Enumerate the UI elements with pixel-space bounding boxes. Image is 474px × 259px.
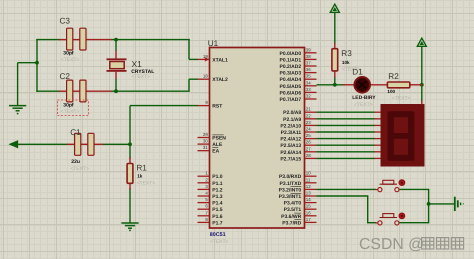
svg-text:U1: U1 <box>208 39 219 48</box>
wire P2.3 to display <box>317 131 375 133</box>
svg-text:PSEN: PSEN <box>212 136 226 142</box>
wire P2.0 to display <box>317 111 375 113</box>
svg-text:EA: EA <box>212 149 219 155</box>
chip pin P2.4/A12 (25) <box>305 138 317 140</box>
wire button2 right <box>399 222 429 224</box>
svg-text:37: 37 <box>306 61 311 66</box>
chip pin P3.5/T1 (15) <box>305 208 317 210</box>
chip pin P0.2/AD2 (37) <box>305 65 317 67</box>
svg-text:P3.3/INT1: P3.3/INT1 <box>279 194 302 200</box>
wire to right ground <box>429 203 455 205</box>
wire into button2 left <box>368 222 376 224</box>
wire XTAL2 net: C2 left segment <box>36 90 60 92</box>
chip pin EA (31) <box>198 150 210 152</box>
chip pin XTAL2 (18) <box>198 78 210 80</box>
wire right vertical between buttons <box>428 189 430 223</box>
svg-text:P1.3: P1.3 <box>212 194 223 200</box>
watermark CSDN @name <box>359 236 464 253</box>
node junction R2 / display feed <box>420 83 424 87</box>
svg-text:30pf: 30pf <box>63 51 74 57</box>
node junction C1/R1/RST <box>128 142 132 146</box>
wire riser junction to RST level <box>129 106 131 145</box>
svg-text:38: 38 <box>306 54 311 59</box>
svg-text:P3.2/INT0: P3.2/INT0 <box>279 187 302 193</box>
7-segment display segment pins <box>375 111 381 113</box>
chip pin P3.2/INT0 (12) <box>305 188 317 190</box>
wire R3 bottom to rail <box>334 77 336 86</box>
svg-text:<TEXT>: <TEXT> <box>354 102 373 108</box>
wire C1 right to junction <box>102 143 131 145</box>
svg-text:14: 14 <box>306 197 311 202</box>
led D1 <box>354 77 370 93</box>
7-segment display common pin <box>421 101 423 105</box>
svg-text:P3.1/TXD: P3.1/TXD <box>280 181 302 187</box>
svg-text:P3.5/T1: P3.5/T1 <box>284 207 302 213</box>
wire junction down to display common pin <box>421 85 423 102</box>
svg-text:23: 23 <box>306 120 311 125</box>
chip pin P1.3 (4) <box>198 195 210 197</box>
resistor R3 <box>332 49 338 71</box>
svg-text:30pf: 30pf <box>63 102 74 108</box>
wire XTAL2 net: into chip pin <box>189 78 198 80</box>
capacitor C2 <box>67 80 73 102</box>
svg-text:RST: RST <box>212 104 222 110</box>
svg-text:P1.4: P1.4 <box>212 201 223 207</box>
ground symbol under R1 <box>121 222 138 224</box>
capacitor C1 pins <box>67 143 75 145</box>
chip pin P0.0/AD0 (39) <box>305 52 317 54</box>
crystal X1 top pin <box>115 40 117 51</box>
svg-text:X1: X1 <box>132 59 143 69</box>
svg-text:P2.4/A12: P2.4/A12 <box>280 137 301 143</box>
svg-text:<TEXT>: <TEXT> <box>70 166 89 172</box>
svg-text:26: 26 <box>306 140 311 145</box>
node junction crystal top <box>114 38 118 42</box>
chip pin P1.1 (2) <box>198 182 210 184</box>
svg-text:17: 17 <box>306 217 311 222</box>
wire R1 top <box>129 144 131 159</box>
svg-text:<TEXT>: <TEXT> <box>210 239 229 245</box>
svg-text:32: 32 <box>306 94 311 99</box>
svg-text:P0.3/AD3: P0.3/AD3 <box>280 71 302 77</box>
svg-text:P2.0/A8: P2.0/A8 <box>283 110 301 116</box>
power terminal arrow above display feed <box>417 38 426 46</box>
chip pin XTAL1 (19) <box>198 58 210 60</box>
wire P0.5 to R3 junction and LED <box>317 84 346 86</box>
chip pin P3.3/INT1 (13) <box>305 195 317 197</box>
chip pin P2.3/A11 (24) <box>305 131 317 133</box>
wire button1 right <box>399 188 429 190</box>
node junction at ground branch <box>35 61 39 65</box>
svg-text:22: 22 <box>306 113 311 118</box>
node junction crystal bottom <box>114 89 118 93</box>
svg-text:D1: D1 <box>352 68 363 77</box>
svg-text:15: 15 <box>306 204 311 209</box>
svg-text:ALE: ALE <box>212 142 223 148</box>
resistor R1 pins <box>129 157 131 165</box>
wire P2.1 to display <box>317 118 375 120</box>
resistor R1 <box>127 164 133 184</box>
chip pin P1.0 (1) <box>198 175 210 177</box>
wire XTAL1 net: C3 right segment to riser <box>111 39 190 41</box>
svg-text:P2.7/A15: P2.7/A15 <box>280 156 301 162</box>
chip pin P1.5 (6) <box>198 208 210 210</box>
wire P2.5 to display <box>317 144 375 146</box>
svg-text:C1: C1 <box>70 128 81 137</box>
svg-text:P1.1: P1.1 <box>212 181 223 187</box>
7-segment display <box>381 104 425 167</box>
crystal X1 <box>107 58 127 60</box>
terminal arrow left of C1 <box>9 141 17 148</box>
svg-text:P0.2/AD2: P0.2/AD2 <box>280 64 302 70</box>
svg-text:P2.3/A11: P2.3/A11 <box>281 130 302 136</box>
svg-text:33: 33 <box>306 87 311 92</box>
svg-text:CSDN @: CSDN @ <box>359 236 424 253</box>
svg-text:<TEXT>: <TEXT> <box>61 57 80 63</box>
chip pin P3.0/RXD (10) <box>305 175 317 177</box>
svg-text:27: 27 <box>306 146 311 151</box>
svg-text:30: 30 <box>203 139 208 144</box>
svg-text:P0.6/AD6: P0.6/AD6 <box>280 90 302 96</box>
resistor R2 <box>387 82 409 88</box>
svg-text:18: 18 <box>203 74 208 79</box>
button S2 (to P3.3/INT1) <box>376 222 378 224</box>
svg-text:31: 31 <box>203 145 208 150</box>
chip pin P0.4/AD4 (35) <box>305 78 317 80</box>
svg-text:P1.7: P1.7 <box>212 220 223 226</box>
chip pin PSEN (29) <box>198 137 210 139</box>
svg-text:80C51: 80C51 <box>210 232 226 238</box>
chip pin P1.6 (7) <box>198 215 210 217</box>
svg-text:P0.1/AD1: P0.1/AD1 <box>280 57 302 63</box>
wire ground branch horizontal <box>18 62 38 64</box>
svg-text:P2.1/A9: P2.1/A9 <box>283 117 301 123</box>
selection box around C2 value <box>57 100 88 116</box>
chip pin P2.0/A8 (21) <box>305 111 317 113</box>
svg-text:P1.2: P1.2 <box>212 187 223 193</box>
svg-text:11: 11 <box>306 177 311 182</box>
resistor R3 pins <box>334 43 336 50</box>
svg-text:R3: R3 <box>341 49 352 58</box>
wire power arrow1 down to R3 <box>334 12 336 45</box>
chip pin P1.2 (3) <box>198 188 210 190</box>
chip pin P2.2/A10 (23) <box>305 124 317 126</box>
svg-text:P0.0/AD0: P0.0/AD0 <box>280 51 302 57</box>
wire R1 bottom to ground <box>129 188 131 223</box>
svg-text:25: 25 <box>306 133 311 138</box>
chip pin P0.5/AD5 (34) <box>305 85 317 87</box>
chip pin P2.7/A15 (28) <box>305 157 317 159</box>
wire P2.7 to display <box>317 157 375 159</box>
svg-text:22u: 22u <box>71 159 80 165</box>
svg-text:P0.7/AD7: P0.7/AD7 <box>280 97 302 103</box>
node junction R3 bottom <box>333 83 337 87</box>
svg-text:<TEXT>: <TEXT> <box>137 180 156 186</box>
svg-text:100: 100 <box>387 89 395 94</box>
svg-text:P2.6/A14: P2.6/A14 <box>280 150 301 156</box>
power terminal arrow above R3 <box>330 4 339 12</box>
svg-text:12: 12 <box>306 184 311 189</box>
wire P2.4 to display <box>317 138 375 140</box>
chip pin P0.1/AD1 (38) <box>305 58 317 60</box>
chip pin P2.5/A13 (26) <box>305 144 317 146</box>
svg-text:<TEXT>: <TEXT> <box>131 74 150 80</box>
svg-text:P1.0: P1.0 <box>212 174 223 180</box>
node junction to ground branch right <box>427 202 431 206</box>
wire XTAL1 net: riser down to XTAL1 pin <box>188 39 190 60</box>
chip pin P0.7/AD7 (32) <box>305 98 317 100</box>
svg-text:C2: C2 <box>60 72 71 81</box>
svg-text:<TEXT>: <TEXT> <box>61 109 80 115</box>
svg-text:XTAL2: XTAL2 <box>212 77 228 83</box>
ground symbol left <box>9 105 26 107</box>
capacitor C1 <box>75 133 81 155</box>
svg-text:LED-BIRY: LED-BIRY <box>352 95 376 101</box>
capacitor C3 <box>67 28 73 50</box>
chip pin P1.7 (8) <box>198 221 210 223</box>
capacitor C3 pins <box>59 39 67 41</box>
svg-text:C3: C3 <box>60 16 71 25</box>
svg-text:21: 21 <box>306 107 311 112</box>
svg-text:39: 39 <box>306 47 311 52</box>
chip pin RST (9) <box>198 105 210 107</box>
svg-text:P1.5: P1.5 <box>212 207 223 213</box>
svg-text:<TEXT>: <TEXT> <box>392 95 411 101</box>
chip pin P2.1/A9 (22) <box>305 118 317 120</box>
svg-text:29: 29 <box>203 132 208 137</box>
crystal X1 bottom pin <box>115 72 117 79</box>
button S1 (to P3.2/INT0) <box>376 189 378 191</box>
chip pin ALE (30) <box>198 143 210 145</box>
wire RST horizontal <box>130 105 198 107</box>
svg-text:P0.4/AD4: P0.4/AD4 <box>280 77 302 83</box>
wire C1 left from terminal <box>18 143 69 145</box>
svg-text:36: 36 <box>306 67 311 72</box>
svg-text:R1: R1 <box>136 163 147 172</box>
chip pin P0.3/AD3 (36) <box>305 72 317 74</box>
wire P2.2 to display <box>317 124 375 126</box>
svg-text:R2: R2 <box>388 72 399 81</box>
chip pin P3.7/RD (17) <box>305 221 317 223</box>
svg-text:P3.7/RD: P3.7/RD <box>282 220 301 226</box>
wire XTAL2 net: C2 right segment to riser <box>111 90 190 92</box>
svg-text:XTAL1: XTAL1 <box>212 57 228 63</box>
wire left vertical joining C3 and C2 rails <box>36 39 38 92</box>
svg-text:P2.2/A10: P2.2/A10 <box>280 123 301 129</box>
op-amp U1 body (80C51 MCU) <box>210 48 305 229</box>
chip pin P2.6/A14 (27) <box>305 151 317 153</box>
svg-text:P0.5/AD5: P0.5/AD5 <box>280 84 302 90</box>
capacitor C2 pins <box>59 90 67 92</box>
chip pin P3.4/T0 (14) <box>305 202 317 204</box>
svg-text:28: 28 <box>306 153 311 158</box>
wire XTAL1 net: C3 left segment <box>36 39 60 41</box>
svg-text:16: 16 <box>306 210 311 215</box>
svg-text:10: 10 <box>306 171 311 176</box>
chip pin P3.1/TXD (11) <box>305 182 317 184</box>
wire P3.2 to button1 <box>317 188 377 190</box>
wire P3.3 drop <box>367 196 369 223</box>
wire P3.3 horizontal <box>317 195 369 197</box>
wire XTAL2 net: riser up to XTAL2 pin <box>188 79 190 91</box>
svg-text:10k: 10k <box>342 60 350 65</box>
led D1 pins <box>343 84 355 86</box>
svg-text:35: 35 <box>306 74 311 79</box>
wire XTAL1 net: into chip pin <box>189 58 198 60</box>
svg-text:P3.6/WR: P3.6/WR <box>281 214 301 220</box>
chip pin P3.6/WR (16) <box>305 215 317 217</box>
chip pin P1.4 (5) <box>198 202 210 204</box>
wire power arrow2 down to R2 junction <box>421 46 423 86</box>
resistor R2 pins <box>370 84 389 86</box>
svg-text:34: 34 <box>306 80 311 85</box>
svg-text:13: 13 <box>306 191 311 196</box>
svg-text:P1.6: P1.6 <box>212 214 223 220</box>
wire P2.6 to display <box>317 151 375 153</box>
svg-text:1k: 1k <box>137 173 143 178</box>
svg-text:P3.4/T0: P3.4/T0 <box>284 201 302 207</box>
svg-text:P2.5/A13: P2.5/A13 <box>280 143 301 149</box>
ground symbol right (rotated) <box>454 197 456 211</box>
svg-text:P3.0/RXD: P3.0/RXD <box>279 174 302 180</box>
chip pin P0.6/AD6 (33) <box>305 91 317 93</box>
svg-text:24: 24 <box>306 127 311 132</box>
wire ground branch vertical <box>17 63 19 105</box>
